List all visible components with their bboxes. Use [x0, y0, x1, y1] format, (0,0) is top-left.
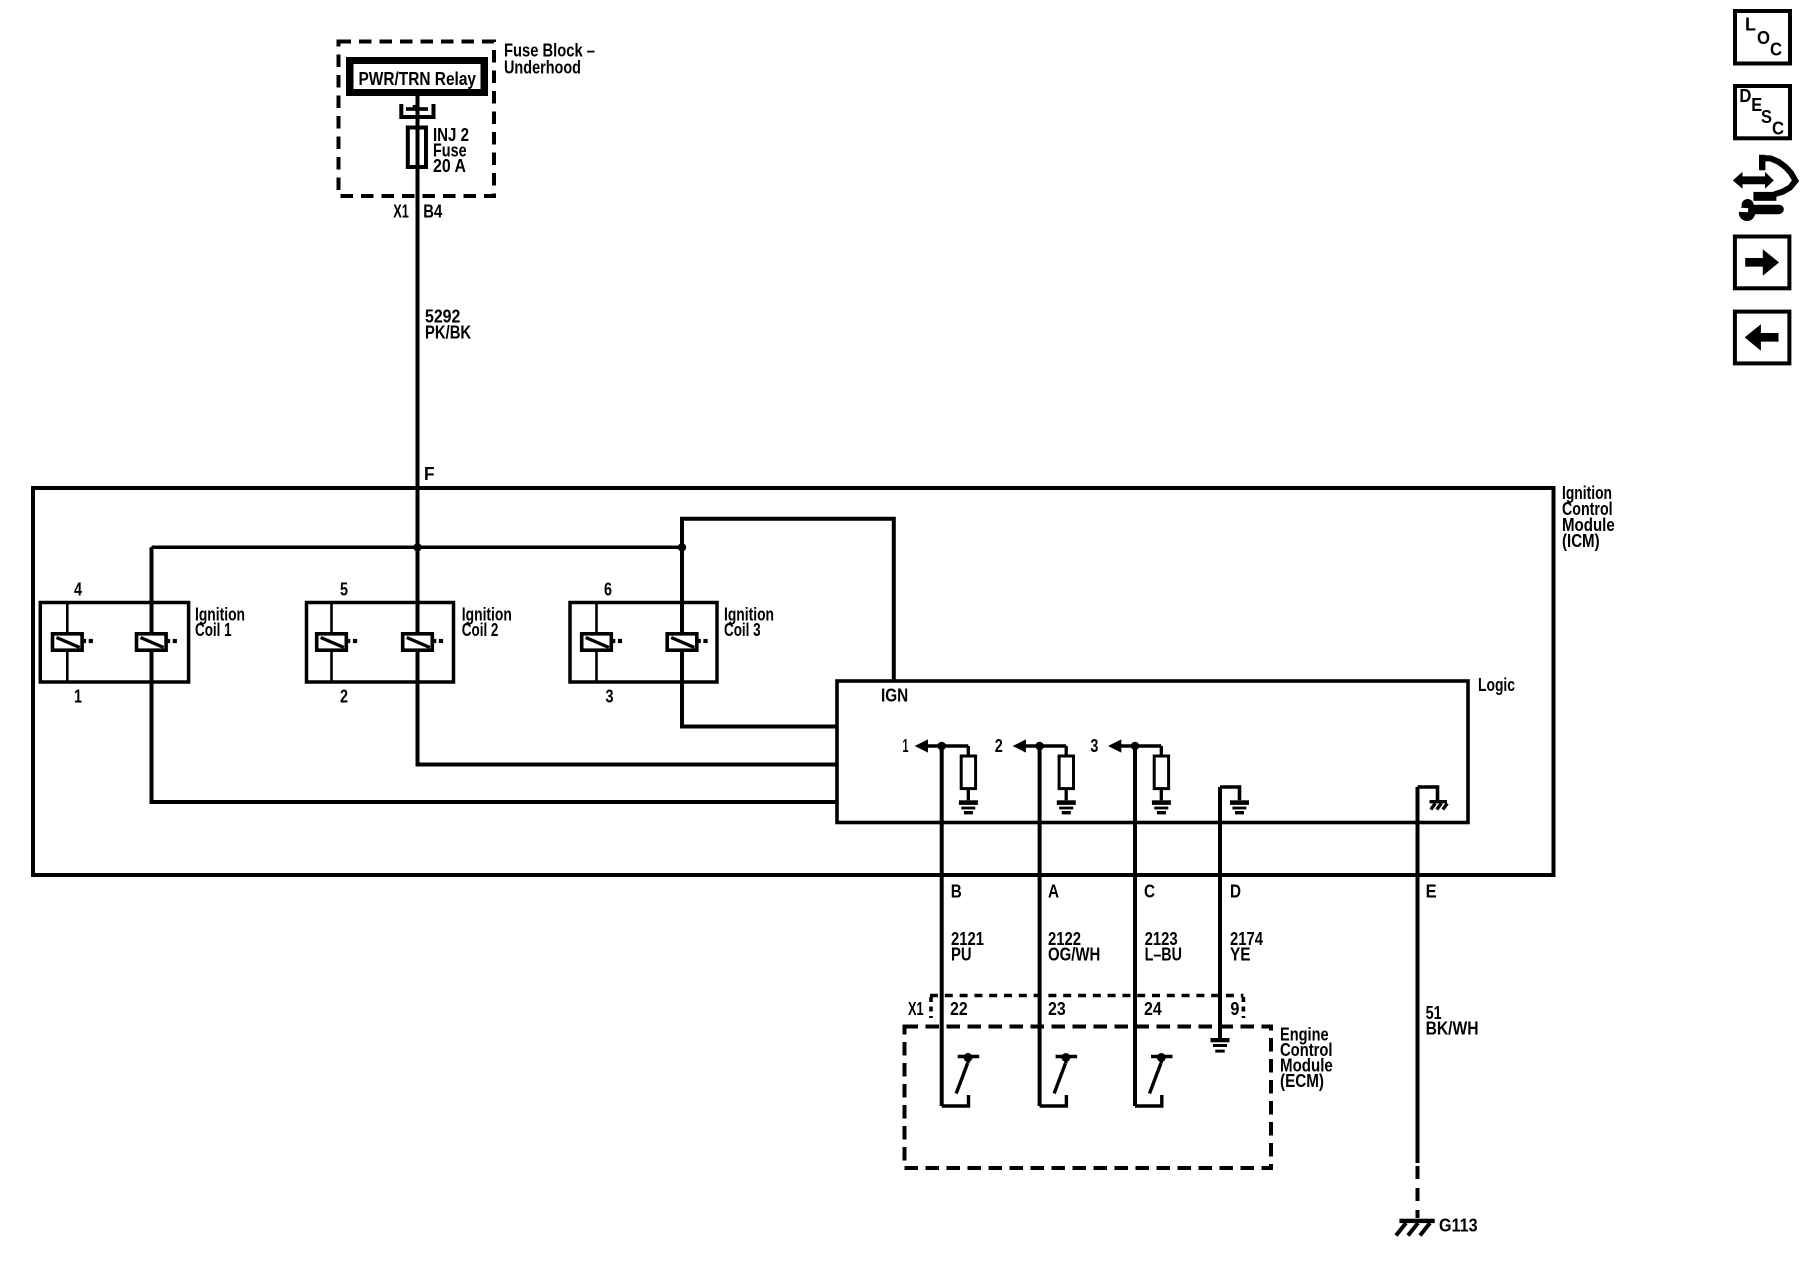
svg-text:4: 4: [74, 580, 82, 600]
svg-text:L–BU: L–BU: [1145, 945, 1182, 965]
svg-text:C: C: [1772, 119, 1784, 139]
svg-text:A: A: [1048, 882, 1059, 902]
svg-text:B: B: [951, 882, 962, 902]
svg-text:20 A: 20 A: [433, 156, 466, 176]
svg-text:Underhood: Underhood: [504, 57, 581, 77]
svg-text:5: 5: [340, 580, 348, 600]
wire coil3 loop to IGN top: [682, 519, 894, 681]
svg-text:IGN: IGN: [881, 686, 908, 706]
wire pin D circuit 2174 YE: [1220, 787, 1263, 1039]
ignition coil 2: [307, 580, 512, 707]
icon box arrow right: [1735, 237, 1790, 289]
svg-text:F: F: [424, 464, 435, 484]
svg-text:23: 23: [1048, 999, 1066, 1019]
svg-text:2: 2: [340, 687, 348, 707]
icon box arrow left: [1735, 312, 1790, 364]
svg-text:6: 6: [604, 580, 612, 600]
icon vehicle navigate with wrench: [1733, 155, 1796, 221]
svg-text:2: 2: [995, 736, 1003, 756]
junction dot at coil3 branch: [678, 543, 686, 551]
wire pin B circuit 2121 PU: [942, 747, 984, 1107]
svg-text:OG/WH: OG/WH: [1048, 945, 1100, 965]
ground hook pin D: [1220, 787, 1249, 814]
svg-text:PWR/TRN Relay: PWR/TRN Relay: [359, 69, 477, 89]
ECM connector X1 row: [908, 996, 1243, 1020]
svg-text:PK/BK: PK/BK: [425, 323, 471, 343]
junction dot at feed: [413, 543, 421, 551]
icon box LOC: [1735, 11, 1790, 64]
wire 5292 PK/BK from fuse to ICM: [393, 169, 471, 547]
fuse block dashed box: [339, 42, 495, 197]
svg-text:C: C: [1770, 40, 1782, 60]
ICM Ignition Control Module box: [33, 483, 1615, 875]
svg-text:Coil 3: Coil 3: [724, 620, 761, 640]
wire coil2 primary feed down and to IGN: [418, 547, 837, 764]
ground pin 9: [1211, 1038, 1230, 1053]
svg-text:PU: PU: [951, 945, 972, 965]
svg-text:BK/WH: BK/WH: [1426, 1019, 1479, 1039]
bus wire B+ distribution: [152, 546, 683, 550]
icon box DESC: [1735, 86, 1790, 139]
svg-text:O: O: [1757, 28, 1770, 48]
svg-text:Coil 2: Coil 2: [462, 620, 499, 640]
svg-text:L: L: [1745, 15, 1756, 35]
transistor driver pin 22: [942, 1053, 980, 1106]
relay PWR/TRN Relay: [346, 57, 488, 96]
fuse INJ 2 20 A: [408, 125, 469, 176]
svg-text:X1: X1: [393, 201, 409, 221]
wire relay to fuse: [416, 96, 420, 127]
transistor driver pin 24: [1135, 1053, 1173, 1106]
svg-text:3: 3: [606, 687, 614, 707]
fuse clip holder: [401, 104, 433, 117]
trigger 3 driver: [1090, 736, 1171, 814]
trigger 2 driver: [995, 736, 1076, 814]
ignition coil 3: [570, 580, 774, 707]
wire pin C circuit 2123 L-BU: [1135, 747, 1182, 1107]
svg-text:D: D: [1230, 882, 1241, 902]
wire pin A circuit 2122 OG/WH: [1040, 747, 1101, 1107]
ignition coil 1: [40, 580, 245, 707]
svg-text:E: E: [1426, 882, 1437, 902]
svg-text:X1: X1: [908, 999, 924, 1019]
svg-text:Coil 1: Coil 1: [195, 620, 232, 640]
svg-text:G113: G113: [1439, 1216, 1478, 1236]
trigger 1 driver: [903, 736, 978, 814]
svg-text:Logic: Logic: [1478, 675, 1515, 695]
wire coil1 primary feed down and to IGN: [152, 547, 837, 802]
svg-text:C: C: [1144, 882, 1155, 902]
svg-text:1: 1: [903, 736, 909, 756]
svg-text:S: S: [1761, 107, 1772, 127]
svg-text:22: 22: [950, 999, 968, 1019]
G113 chassis ground: [1396, 1166, 1478, 1236]
IGN logic box: [837, 675, 1515, 823]
svg-text:3: 3: [1090, 736, 1098, 756]
chassis ground hook pin E: [1418, 787, 1448, 810]
ECM Engine Control Module dashed box: [905, 1025, 1333, 1169]
wire pin E circuit 51 BK/WH: [1418, 787, 1479, 1163]
svg-text:(ICM): (ICM): [1562, 531, 1600, 551]
svg-text:24: 24: [1144, 999, 1162, 1019]
fuse block label: [504, 41, 595, 78]
svg-text:(ECM): (ECM): [1280, 1071, 1324, 1091]
svg-text:B4: B4: [423, 201, 442, 221]
transistor driver pin 23: [1040, 1053, 1078, 1106]
svg-text:9: 9: [1230, 999, 1239, 1019]
svg-text:1: 1: [74, 687, 82, 707]
wire coil3 down to IGN: [682, 547, 836, 726]
svg-text:D: D: [1739, 86, 1751, 106]
svg-text:YE: YE: [1230, 945, 1251, 965]
